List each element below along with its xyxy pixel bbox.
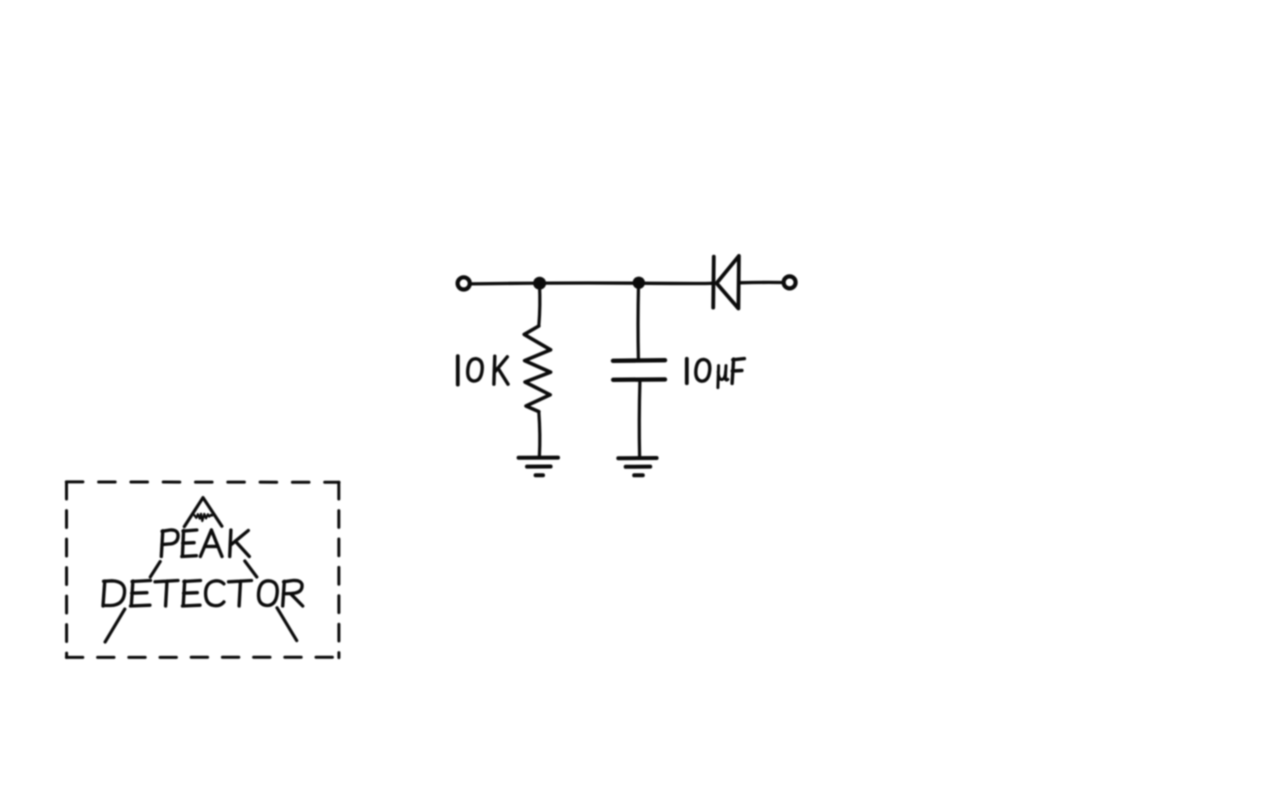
annotation box: dashed border (bottom edge) [66, 656, 339, 659]
output terminal (right, open circle) [784, 276, 796, 288]
label: PEAK [161, 530, 178, 557]
mountain doodle: left slope lower segment [105, 609, 125, 642]
wire: capacitor bottom plate to ground [638, 382, 642, 456]
ground symbol (under resistor) [519, 458, 558, 476]
node: junction dot at resistor branch [533, 277, 546, 290]
wire: node A down to resistor [539, 285, 540, 326]
label: DETECTOR [103, 581, 125, 606]
mountain doodle: left slope mid segment [150, 562, 160, 578]
node: junction dot at capacitor branch [633, 277, 645, 289]
capacitor C1 (10uF, two plates) [613, 360, 665, 380]
input terminal (left, open circle) [458, 277, 470, 289]
wire: diode to output terminal [739, 281, 782, 285]
wire: resistor to ground [539, 412, 540, 456]
mountain doodle: snow squiggle [194, 514, 212, 521]
value label: 10K (resistor) [456, 356, 460, 385]
value label: 10uF (capacitor) [685, 359, 689, 383]
annotation box: dashed border (right edge) [337, 482, 340, 657]
mountain doodle: peak apex [184, 498, 222, 527]
annotation box: dashed border (left edge) [65, 482, 68, 657]
wire: input terminal to diode anode-side (node A) [470, 281, 713, 285]
mountain doodle: right slope mid segment [245, 561, 257, 577]
resistor R1 (10K zigzag) [524, 326, 550, 412]
mountain doodle: right slope lower segment [277, 608, 297, 641]
annotation box: dashed border (top edge) [66, 480, 339, 483]
diode D1 (cathode bar on left) [713, 256, 739, 309]
wire: node B down to capacitor top plate [636, 285, 640, 359]
ground symbol (under capacitor) [618, 458, 656, 475]
